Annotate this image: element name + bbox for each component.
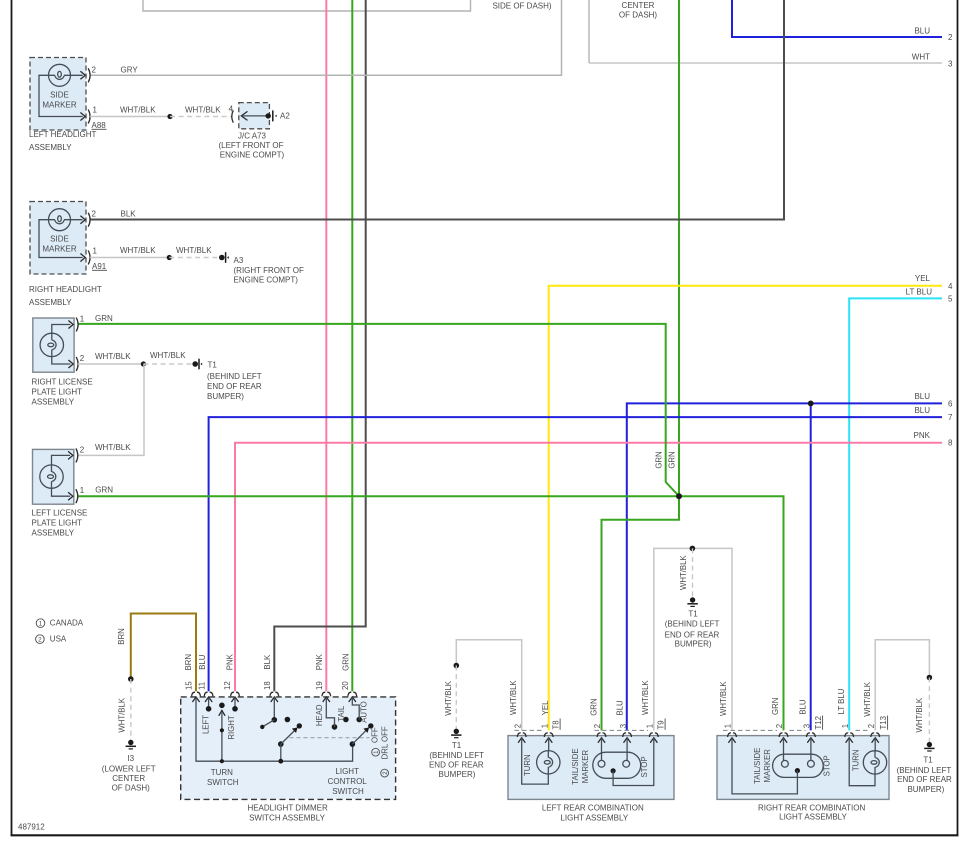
svg-text:4: 4 — [948, 282, 953, 291]
svg-text:LT BLU: LT BLU — [837, 688, 846, 714]
svg-text:(BEHIND LEFT: (BEHIND LEFT — [665, 619, 720, 628]
svg-text:GRN: GRN — [95, 314, 113, 323]
svg-text:20: 20 — [341, 681, 350, 690]
svg-text:SWITCH: SWITCH — [332, 787, 364, 796]
svg-text:WHT/BLK: WHT/BLK — [641, 680, 650, 715]
svg-text:J/C A73: J/C A73 — [238, 131, 267, 140]
svg-text:CANADA: CANADA — [50, 619, 84, 628]
svg-text:CENTER: CENTER — [622, 1, 655, 10]
svg-text:RIGHT HEADLIGHT: RIGHT HEADLIGHT — [29, 285, 102, 294]
svg-text:RIGHT LICENSE: RIGHT LICENSE — [32, 378, 93, 387]
svg-text:BUMPER): BUMPER) — [907, 785, 944, 794]
svg-text:WHT/BLK: WHT/BLK — [719, 681, 728, 716]
svg-text:1: 1 — [93, 246, 98, 255]
svg-text:2: 2 — [948, 33, 953, 42]
svg-text:2: 2 — [593, 724, 602, 728]
svg-text:1: 1 — [93, 105, 98, 114]
svg-text:YEL: YEL — [541, 700, 550, 715]
svg-text:END OF REAR: END OF REAR — [665, 630, 720, 639]
svg-text:MARKER: MARKER — [581, 750, 590, 784]
svg-text:OFF: OFF — [371, 727, 380, 743]
svg-text:1: 1 — [724, 724, 733, 728]
svg-text:(BEHIND LEFT: (BEHIND LEFT — [429, 751, 484, 760]
svg-text:BRN: BRN — [117, 628, 126, 644]
svg-text:(LOWER LEFT: (LOWER LEFT — [102, 764, 156, 773]
svg-text:1: 1 — [80, 486, 85, 495]
svg-text:GRN: GRN — [95, 486, 113, 495]
svg-text:T1: T1 — [923, 755, 933, 764]
svg-text:LT BLU: LT BLU — [906, 288, 933, 297]
svg-text:WHT/BLK: WHT/BLK — [95, 352, 131, 361]
svg-text:TURN: TURN — [211, 768, 233, 777]
svg-text:ENGINE COMPT): ENGINE COMPT) — [220, 151, 285, 160]
svg-text:SIDE: SIDE — [50, 235, 69, 244]
svg-text:WHT/BLK: WHT/BLK — [185, 105, 221, 114]
svg-text:11: 11 — [198, 682, 207, 690]
svg-text:GRN: GRN — [668, 451, 677, 468]
svg-text:2: 2 — [92, 65, 97, 74]
svg-text:GRY: GRY — [121, 65, 139, 74]
svg-text:T13: T13 — [879, 716, 888, 729]
svg-text:BUMPER): BUMPER) — [675, 640, 712, 649]
svg-text:T9: T9 — [657, 720, 666, 729]
svg-text:(LEFT FRONT OF: (LEFT FRONT OF — [218, 141, 283, 150]
svg-text:(RIGHT FRONT OF: (RIGHT FRONT OF — [234, 266, 304, 275]
svg-text:STOP: STOP — [823, 755, 832, 776]
svg-text:AUTO: AUTO — [359, 701, 368, 723]
svg-text:STOP: STOP — [640, 756, 649, 777]
svg-text:WHT/BLK: WHT/BLK — [120, 246, 156, 255]
svg-text:PLATE LIGHT: PLATE LIGHT — [32, 519, 83, 528]
svg-text:SIDE: SIDE — [50, 90, 69, 99]
svg-text:1: 1 — [39, 621, 43, 628]
svg-text:ASSEMBLY: ASSEMBLY — [32, 398, 75, 407]
svg-text:YEL: YEL — [915, 274, 931, 283]
svg-text:487912: 487912 — [18, 823, 45, 832]
svg-text:LEFT HEADLIGHT: LEFT HEADLIGHT — [29, 130, 97, 139]
svg-text:T1: T1 — [208, 360, 218, 369]
svg-text:SWITCH ASSEMBLY: SWITCH ASSEMBLY — [249, 813, 326, 822]
svg-text:BLU: BLU — [914, 392, 930, 401]
svg-text:WHT: WHT — [912, 53, 930, 62]
svg-text:END OF REAR: END OF REAR — [207, 382, 262, 391]
svg-text:TURN: TURN — [851, 749, 860, 771]
svg-text:DRL OFF: DRL OFF — [380, 726, 389, 759]
svg-text:BLK: BLK — [263, 654, 272, 670]
svg-text:I3: I3 — [127, 754, 134, 763]
svg-text:3: 3 — [803, 724, 812, 728]
svg-text:2: 2 — [92, 210, 97, 219]
svg-text:SWITCH: SWITCH — [207, 778, 239, 787]
svg-text:OF DASH): OF DASH) — [112, 783, 151, 792]
svg-text:END OF REAR: END OF REAR — [429, 761, 484, 770]
svg-text:LIGHT ASSEMBLY: LIGHT ASSEMBLY — [779, 812, 847, 821]
svg-text:(BEHIND LEFT: (BEHIND LEFT — [207, 372, 262, 381]
svg-text:BLU: BLU — [914, 406, 930, 415]
svg-text:15: 15 — [185, 681, 194, 690]
svg-text:1: 1 — [540, 724, 549, 728]
svg-text:ASSEMBLY: ASSEMBLY — [29, 143, 72, 152]
svg-text:1: 1 — [646, 724, 655, 728]
svg-text:WHT/BLK: WHT/BLK — [679, 555, 688, 590]
svg-text:TAIL/SIDE: TAIL/SIDE — [753, 748, 762, 784]
svg-text:A2: A2 — [280, 112, 290, 121]
svg-text:WHT/BLK: WHT/BLK — [150, 351, 186, 360]
svg-text:2: 2 — [775, 724, 784, 728]
svg-text:LEFT LICENSE: LEFT LICENSE — [32, 509, 88, 518]
svg-text:ASSEMBLY: ASSEMBLY — [29, 298, 72, 307]
svg-text:4: 4 — [229, 104, 234, 113]
svg-text:2: 2 — [80, 354, 85, 363]
svg-text:RIGHT: RIGHT — [227, 715, 236, 739]
svg-text:WHT/BLK: WHT/BLK — [176, 246, 212, 255]
svg-text:T8: T8 — [552, 720, 561, 729]
svg-text:A91: A91 — [92, 262, 107, 271]
svg-text:GRN: GRN — [589, 698, 598, 715]
svg-text:LEFT: LEFT — [201, 715, 210, 734]
svg-text:(BEHIND LEFT: (BEHIND LEFT — [897, 766, 952, 775]
svg-text:A3: A3 — [234, 256, 244, 265]
svg-text:GRN: GRN — [654, 451, 663, 468]
svg-text:T1: T1 — [452, 741, 462, 750]
svg-text:GRN: GRN — [342, 654, 351, 671]
svg-text:OF DASH): OF DASH) — [619, 10, 658, 19]
svg-text:WHT/BLK: WHT/BLK — [118, 697, 127, 732]
svg-text:LIGHT ASSEMBLY: LIGHT ASSEMBLY — [560, 813, 628, 822]
svg-text:WHT/BLK: WHT/BLK — [863, 681, 872, 716]
svg-text:8: 8 — [948, 439, 953, 448]
svg-text:HEAD: HEAD — [315, 704, 324, 726]
svg-text:LIGHT: LIGHT — [335, 767, 359, 776]
svg-text:LEFT REAR COMBINATION: LEFT REAR COMBINATION — [542, 803, 644, 812]
svg-text:T12: T12 — [814, 716, 823, 729]
svg-text:3: 3 — [619, 724, 628, 728]
svg-text:PNK: PNK — [225, 653, 234, 670]
svg-text:BLK: BLK — [121, 210, 137, 219]
svg-text:PLATE LIGHT: PLATE LIGHT — [32, 388, 83, 397]
svg-text:TURN: TURN — [523, 754, 532, 776]
svg-text:BUMPER): BUMPER) — [207, 392, 244, 401]
svg-text:ENGINE COMPT): ENGINE COMPT) — [234, 275, 299, 284]
svg-text:MARKER: MARKER — [42, 100, 76, 109]
svg-text:ASSEMBLY: ASSEMBLY — [32, 529, 75, 538]
svg-text:7: 7 — [948, 413, 953, 422]
svg-text:GRN: GRN — [771, 698, 780, 715]
svg-text:MARKER: MARKER — [42, 245, 76, 254]
svg-text:T1: T1 — [688, 609, 698, 618]
svg-text:1: 1 — [80, 315, 85, 324]
svg-text:12: 12 — [223, 681, 232, 690]
svg-text:5: 5 — [948, 294, 953, 303]
svg-text:BLU: BLU — [198, 654, 207, 670]
svg-text:2: 2 — [80, 445, 85, 454]
svg-text:A88: A88 — [92, 121, 107, 130]
svg-text:CENTER: CENTER — [112, 774, 145, 783]
svg-text:19: 19 — [315, 681, 324, 690]
svg-text:PNK: PNK — [315, 653, 324, 670]
svg-text:WHT/BLK: WHT/BLK — [120, 105, 156, 114]
svg-text:1: 1 — [841, 724, 850, 728]
svg-text:MARKER: MARKER — [763, 749, 772, 783]
svg-text:BRN: BRN — [184, 654, 193, 670]
svg-text:RIGHT REAR COMBINATION: RIGHT REAR COMBINATION — [758, 803, 865, 812]
svg-text:TAIL/SIDE: TAIL/SIDE — [571, 748, 580, 784]
svg-text:SIDE OF DASH): SIDE OF DASH) — [492, 1, 551, 10]
svg-text:WHT/BLK: WHT/BLK — [95, 443, 131, 452]
svg-text:USA: USA — [50, 635, 67, 644]
svg-text:2: 2 — [513, 724, 522, 728]
svg-text:WHT/BLK: WHT/BLK — [915, 697, 924, 732]
svg-text:BLU: BLU — [799, 699, 808, 715]
svg-text:6: 6 — [948, 399, 953, 408]
svg-text:BUMPER): BUMPER) — [439, 770, 476, 779]
svg-text:3: 3 — [948, 60, 953, 69]
svg-text:2: 2 — [867, 724, 876, 728]
svg-text:WHT/BLK: WHT/BLK — [444, 680, 453, 715]
svg-text:18: 18 — [263, 681, 272, 690]
svg-text:TAIL: TAIL — [337, 705, 346, 722]
svg-text:BLU: BLU — [615, 700, 624, 716]
svg-text:BLU: BLU — [914, 27, 930, 36]
svg-text:WHT/BLK: WHT/BLK — [509, 680, 518, 715]
svg-text:HEADLIGHT DIMMER: HEADLIGHT DIMMER — [247, 804, 328, 813]
svg-text:CONTROL: CONTROL — [328, 777, 368, 786]
svg-text:PNK: PNK — [914, 431, 931, 440]
svg-text:2: 2 — [38, 637, 42, 644]
svg-text:END OF REAR: END OF REAR — [897, 775, 952, 784]
